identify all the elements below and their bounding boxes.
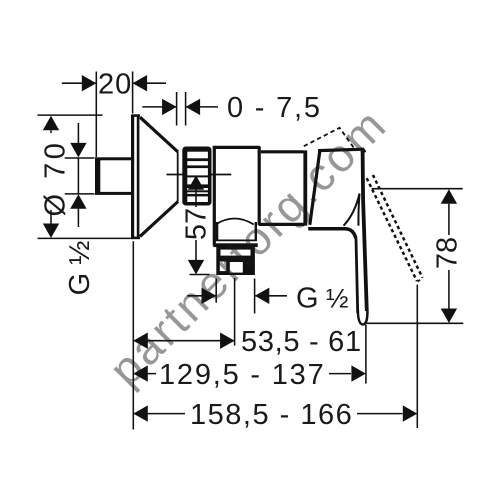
svg-text:½: ½ [326,283,349,313]
svg-text:53,5 - 61: 53,5 - 61 [241,326,362,358]
svg-text:0 - 7,5: 0 - 7,5 [227,92,322,124]
svg-text:20: 20 [98,69,132,101]
svg-text:57: 57 [181,208,213,240]
svg-text:129,5 - 137: 129,5 - 137 [159,359,326,391]
svg-text:G: G [296,282,319,314]
svg-text:G ½: G ½ [64,241,96,296]
svg-text:78: 78 [432,237,464,269]
svg-text:158,5 - 166: 158,5 - 166 [190,399,353,431]
svg-text:Ø 70: Ø 70 [40,140,72,217]
